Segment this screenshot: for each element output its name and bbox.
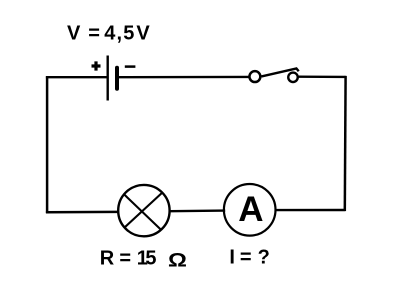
wire top middle segment (battery to switch)	[119, 76, 250, 79]
switch S1 left contact	[249, 71, 260, 82]
wire right vertical	[344, 76, 347, 211]
wire bottom-left segment (lamp to corner)	[46, 211, 118, 214]
wire between lamp and ammeter	[171, 209, 226, 212]
battery plus sign	[92, 61, 101, 70]
wire top-right segment (switch to corner)	[298, 75, 346, 78]
switch S1 lever (open)	[262, 68, 299, 76]
wire bottom-right segment (corner to ammeter)	[276, 209, 346, 212]
ammeter A1 circle	[224, 184, 276, 236]
battery minus sign	[125, 65, 136, 68]
switch S1 right contact	[288, 73, 298, 83]
wire left vertical	[46, 76, 49, 213]
wire top-left segment (corner to battery)	[46, 76, 107, 78]
svg-text:A: A	[238, 190, 263, 229]
battery B1 positive plate (long)	[106, 56, 108, 101]
svg-text:R=15: R=15	[100, 247, 157, 269]
lamp L1 circle	[118, 185, 169, 236]
svg-text:Ω: Ω	[168, 248, 187, 270]
lamp L1 cross line 1	[124, 194, 161, 229]
battery B1 negative plate (short)	[115, 68, 119, 89]
lamp L1 cross line 2	[124, 192, 163, 228]
svg-text:V=4,5V: V=4,5V	[67, 22, 150, 44]
